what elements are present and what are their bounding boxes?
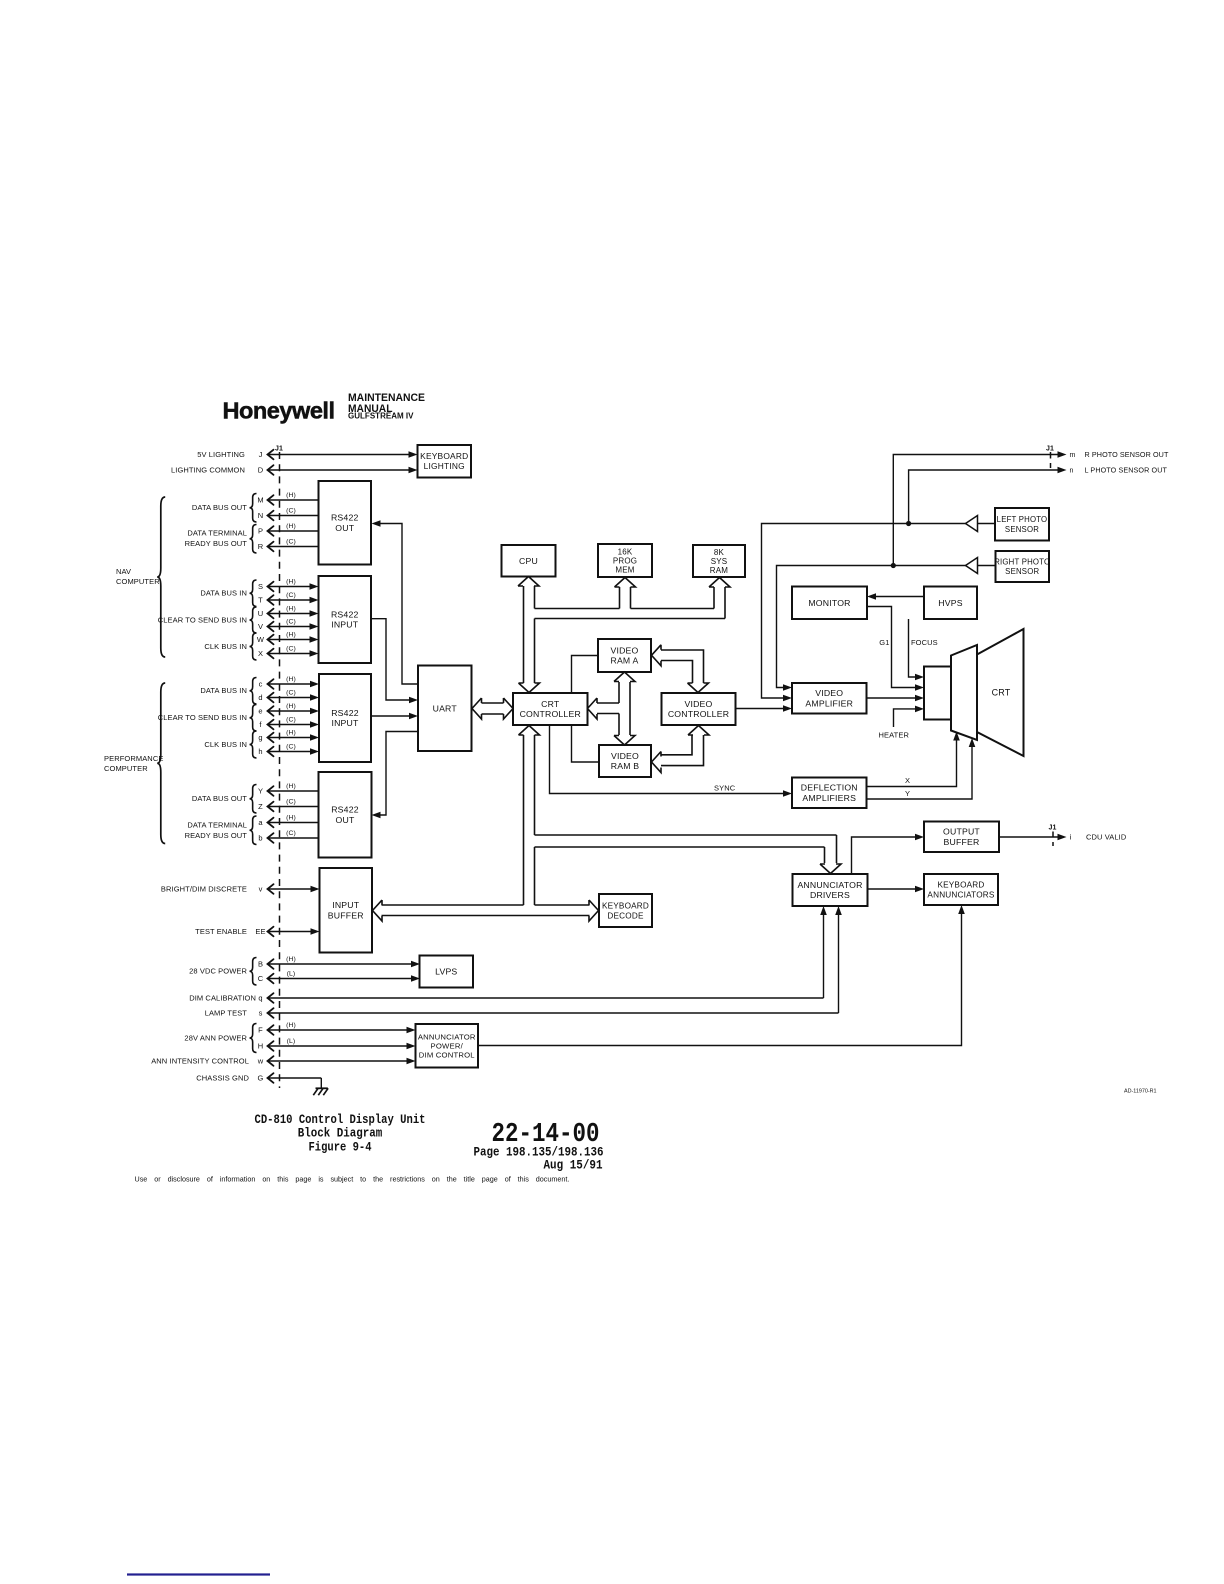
svg-text:(C): (C) <box>286 538 296 545</box>
svg-text:(L): (L) <box>287 970 296 977</box>
svg-text:(H): (H) <box>286 783 296 790</box>
svg-text:J1: J1 <box>1049 825 1057 832</box>
svg-text:(C): (C) <box>286 743 296 750</box>
svg-text:V: V <box>258 622 263 631</box>
svg-text:(H): (H) <box>286 492 296 499</box>
svg-text:MONITOR: MONITOR <box>808 598 850 608</box>
svg-text:Y: Y <box>258 787 263 796</box>
svg-text:KEYBOARDLIGHTING: KEYBOARDLIGHTING <box>420 451 468 471</box>
svg-text:J1: J1 <box>275 446 283 453</box>
svg-text:Z: Z <box>258 802 263 811</box>
svg-text:h: h <box>258 747 262 756</box>
svg-text:DATA BUS OUT: DATA BUS OUT <box>192 503 247 512</box>
svg-text:COMPUTER: COMPUTER <box>116 577 160 586</box>
svg-text:5V LIGHTING: 5V LIGHTING <box>197 450 245 459</box>
svg-text:Page 198.135/198.136: Page 198.135/198.136 <box>474 1146 604 1160</box>
svg-text:L PHOTO SENSOR OUT: L PHOTO SENSOR OUT <box>1085 466 1168 475</box>
svg-text:CPU: CPU <box>519 556 538 566</box>
svg-text:(C): (C) <box>286 716 296 723</box>
svg-text:q: q <box>258 994 262 1003</box>
svg-text:v: v <box>259 885 263 894</box>
svg-text:Aug 15/91: Aug 15/91 <box>544 1159 603 1173</box>
svg-text:(H): (H) <box>286 729 296 736</box>
svg-text:(C): (C) <box>286 830 296 837</box>
svg-text:C: C <box>258 974 264 983</box>
svg-text:NAV: NAV <box>116 567 131 576</box>
svg-text:HVPS: HVPS <box>938 598 962 608</box>
svg-text:AD-11970-R1: AD-11970-R1 <box>1124 1089 1157 1095</box>
svg-text:VIDEORAM B: VIDEORAM B <box>611 751 640 771</box>
svg-text:F: F <box>258 1026 263 1035</box>
svg-text:CHASSIS GND: CHASSIS GND <box>196 1074 249 1083</box>
svg-text:DATA TERMINAL: DATA TERMINAL <box>187 821 247 830</box>
svg-text:(H): (H) <box>286 605 296 612</box>
svg-text:28V ANN POWER: 28V ANN POWER <box>184 1034 247 1043</box>
svg-text:Y: Y <box>905 789 910 798</box>
svg-text:(H): (H) <box>286 676 296 683</box>
svg-text:LIGHTING COMMON: LIGHTING COMMON <box>171 466 245 475</box>
svg-text:Block Diagram: Block Diagram <box>298 1125 383 1140</box>
svg-text:B: B <box>258 960 263 969</box>
svg-text:s: s <box>259 1009 263 1018</box>
svg-text:i: i <box>1070 833 1072 842</box>
svg-text:LVPS: LVPS <box>435 967 457 977</box>
svg-text:m: m <box>1070 452 1076 459</box>
svg-text:(H): (H) <box>286 523 296 530</box>
svg-text:(L): (L) <box>287 1038 296 1045</box>
svg-text:DATA BUS IN: DATA BUS IN <box>200 686 247 695</box>
svg-text:a: a <box>258 818 263 827</box>
svg-text:CRT: CRT <box>992 687 1011 697</box>
svg-text:(H): (H) <box>286 956 296 963</box>
svg-text:M: M <box>257 496 263 505</box>
svg-text:(C): (C) <box>286 645 296 652</box>
svg-text:D: D <box>258 466 264 475</box>
svg-text:KEYBOARDDECODE: KEYBOARDDECODE <box>602 901 649 920</box>
svg-text:LAMP TEST: LAMP TEST <box>205 1009 248 1018</box>
svg-text:R: R <box>258 542 264 551</box>
svg-text:SYNC: SYNC <box>714 784 736 793</box>
svg-text:N: N <box>258 511 264 520</box>
svg-text:n: n <box>1070 468 1074 475</box>
svg-text:Use or disclosure of informati: Use or disclosure of information on this… <box>135 1175 570 1184</box>
svg-text:(C): (C) <box>286 798 296 805</box>
svg-text:CLEAR TO SEND BUS IN: CLEAR TO SEND BUS IN <box>158 713 247 722</box>
svg-text:INPUTBUFFER: INPUTBUFFER <box>328 900 364 920</box>
svg-text:c: c <box>259 680 263 689</box>
svg-text:(H): (H) <box>286 1022 296 1029</box>
svg-text:GULFSTREAM IV: GULFSTREAM IV <box>348 412 414 421</box>
svg-text:EE: EE <box>255 927 265 936</box>
svg-text:OUTPUTBUFFER: OUTPUTBUFFER <box>943 827 980 847</box>
svg-text:G: G <box>258 1074 264 1083</box>
svg-text:CLK BUS IN: CLK BUS IN <box>204 740 247 749</box>
svg-text:R PHOTO SENSOR OUT: R PHOTO SENSOR OUT <box>1085 450 1169 459</box>
svg-text:e: e <box>258 707 262 716</box>
svg-text:Figure 9-4: Figure 9-4 <box>309 1139 372 1154</box>
svg-text:(C): (C) <box>286 507 296 514</box>
svg-text:HEATER: HEATER <box>879 731 910 740</box>
svg-text:X: X <box>258 649 263 658</box>
svg-text:W: W <box>257 635 265 644</box>
svg-text:FOCUS: FOCUS <box>911 638 938 647</box>
svg-text:PERFORMANCE: PERFORMANCE <box>104 754 163 763</box>
svg-text:READY BUS OUT: READY BUS OUT <box>185 539 248 548</box>
svg-text:Honeywell: Honeywell <box>223 398 335 424</box>
svg-text:(C): (C) <box>286 689 296 696</box>
svg-text:(C): (C) <box>286 592 296 599</box>
svg-text:w: w <box>257 1057 264 1066</box>
svg-text:J1: J1 <box>1046 446 1054 453</box>
svg-text:DATA TERMINAL: DATA TERMINAL <box>187 529 247 538</box>
svg-text:U: U <box>258 609 264 618</box>
svg-text:S: S <box>258 582 263 591</box>
svg-text:b: b <box>258 834 262 843</box>
svg-text:(H): (H) <box>286 578 296 585</box>
svg-text:(C): (C) <box>286 618 296 625</box>
svg-text:RS422INPUT: RS422INPUT <box>331 708 359 728</box>
svg-text:d: d <box>258 693 262 702</box>
svg-text:VIDEORAM A: VIDEORAM A <box>610 646 638 666</box>
svg-text:J: J <box>259 450 263 459</box>
svg-text:UART: UART <box>433 703 458 713</box>
svg-text:g: g <box>258 733 262 742</box>
svg-text:RS422INPUT: RS422INPUT <box>331 609 359 629</box>
svg-text:G1: G1 <box>879 638 889 647</box>
svg-text:ANN INTENSITY CONTROL: ANN INTENSITY CONTROL <box>151 1057 249 1066</box>
svg-text:(H): (H) <box>286 631 296 638</box>
svg-text:28 VDC POWER: 28 VDC POWER <box>189 967 247 976</box>
svg-text:X: X <box>905 776 910 785</box>
svg-text:H: H <box>258 1042 264 1051</box>
svg-text:DATA BUS OUT: DATA BUS OUT <box>192 794 247 803</box>
svg-text:READY BUS OUT: READY BUS OUT <box>185 831 248 840</box>
svg-text:BRIGHT/DIM DISCRETE: BRIGHT/DIM DISCRETE <box>161 885 247 894</box>
svg-text:T: T <box>258 596 263 605</box>
svg-text:DEFLECTIONAMPLIFIERS: DEFLECTIONAMPLIFIERS <box>801 783 858 803</box>
svg-text:CLK BUS IN: CLK BUS IN <box>204 642 247 651</box>
svg-text:(H): (H) <box>286 814 296 821</box>
svg-text:DIM CALIBRATION: DIM CALIBRATION <box>189 994 256 1003</box>
svg-text:CDU VALID: CDU VALID <box>1086 833 1127 842</box>
svg-text:(H): (H) <box>286 703 296 710</box>
svg-text:P: P <box>258 527 263 536</box>
svg-text:DATA BUS IN: DATA BUS IN <box>200 589 247 598</box>
svg-text:TEST ENABLE: TEST ENABLE <box>195 927 247 936</box>
svg-text:COMPUTER: COMPUTER <box>104 764 148 773</box>
svg-text:CLEAR TO SEND BUS IN: CLEAR TO SEND BUS IN <box>158 616 247 625</box>
